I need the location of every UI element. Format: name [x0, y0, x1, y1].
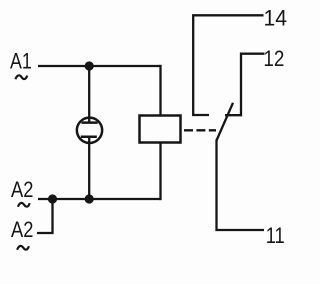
- node junction dot on A1 line: [85, 61, 94, 70]
- lamp L1 bottom electrode: [81, 135, 97, 138]
- mechanical link dashed line: [184, 129, 216, 131]
- coil K1 rectangle: [140, 116, 181, 143]
- wire A1 to coil vertical: [159, 65, 161, 116]
- lamp L1 top electrode: [82, 121, 98, 124]
- svg-text:A2: A2: [11, 217, 33, 242]
- svg-text:14: 14: [264, 6, 288, 31]
- svg-text:A1: A1: [10, 49, 32, 74]
- wire common lead to terminal 11: [217, 140, 265, 231]
- terminal 12 lead and NC contact: [225, 54, 265, 115]
- svg-text:11: 11: [266, 223, 285, 248]
- wire second A2 lead: [37, 199, 53, 233]
- terminal 14 lead and NO contact: [193, 15, 263, 115]
- svg-text:A2: A2: [11, 177, 33, 202]
- wire lamp bottom lead: [88, 137, 90, 199]
- lamp L1 glow-lamp circle: [77, 118, 102, 143]
- wire A2 lead horizontal: [38, 198, 161, 200]
- contact armature: [217, 103, 234, 141]
- svg-text:12: 12: [263, 46, 284, 71]
- wire lamp top lead: [88, 66, 90, 123]
- wire coil bottom lead: [159, 143, 161, 201]
- label AC tilde under first A2: [18, 203, 30, 207]
- node junction dot A2 second terminal: [48, 194, 57, 203]
- node junction dot lamp on A2 line: [85, 194, 94, 203]
- label AC tilde under second A2: [17, 246, 29, 250]
- wire A1 lead horizontal: [38, 65, 161, 67]
- label AC tilde under A1: [15, 75, 27, 79]
